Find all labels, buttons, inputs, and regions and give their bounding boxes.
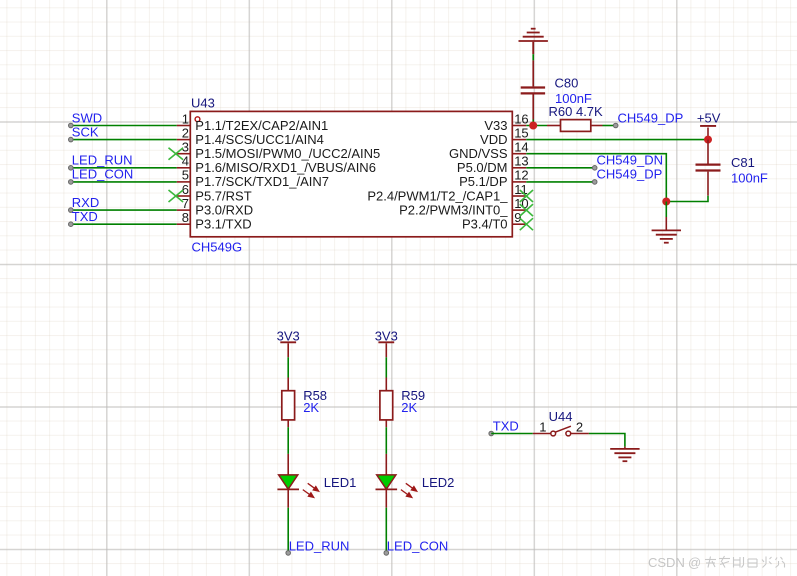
- net label RXD: [72, 195, 99, 210]
- net port dot CH549_DP (lower): [592, 180, 597, 185]
- svg-text:P1.7/SCK/TXD1_/AIN7: P1.7/SCK/TXD1_/AIN7: [195, 174, 329, 189]
- svg-text:CH549G: CH549G: [192, 240, 243, 255]
- svg-text:SCK: SCK: [72, 124, 99, 139]
- svg-text:P1.1/T2EX/CAP2/AIN1: P1.1/T2EX/CAP2/AIN1: [195, 118, 328, 133]
- wire C80 to node V33: [532, 120, 534, 126]
- U43 left pin numbers 1-8: [182, 111, 189, 225]
- C81 designator: [731, 155, 755, 170]
- power 3V3 (right column): [375, 328, 398, 357]
- svg-text:P3.1/TXD: P3.1/TXD: [195, 217, 251, 232]
- wire 3V3 to R58: [287, 357, 289, 377]
- svg-text:CH549_DP: CH549_DP: [618, 110, 684, 125]
- watermark CJK glyph placeholders: [705, 556, 785, 568]
- no-connect X pin 6: [169, 190, 184, 202]
- ground GND1 (top, flipped up): [519, 29, 548, 55]
- svg-text:P2.4/PWM1/T2_/CAP1_: P2.4/PWM1/T2_/CAP1_: [367, 188, 508, 203]
- wire TXD to switch pin1: [491, 433, 533, 435]
- net port dot LED_CON: [69, 180, 74, 185]
- svg-text:1: 1: [539, 419, 546, 434]
- U44 designator: [549, 409, 573, 424]
- svg-text:4: 4: [182, 154, 189, 169]
- svg-text:TXD: TXD: [493, 418, 519, 433]
- svg-text:2: 2: [182, 125, 189, 140]
- junction node V33: [529, 122, 537, 130]
- wire gnd node down: [665, 202, 667, 218]
- wire GND1 to C80: [532, 54, 534, 60]
- svg-text:LED_RUN: LED_RUN: [289, 538, 350, 553]
- U43 reference designator: [191, 96, 215, 111]
- net port dot CH549_DP (top): [613, 123, 618, 128]
- net label LED_RUN (bottom): [289, 538, 350, 553]
- net port dot TXD: [69, 222, 74, 227]
- no-connect X pin 3: [169, 148, 184, 160]
- R58 designator: [303, 388, 327, 403]
- svg-text:VDD: VDD: [480, 132, 507, 147]
- power +5V symbol: [697, 111, 721, 136]
- ground GND2 (below C81): [652, 217, 681, 243]
- svg-text:LED1: LED1: [324, 475, 357, 490]
- svg-text:SWD: SWD: [72, 110, 102, 125]
- U43 value CH549G: [192, 240, 243, 255]
- svg-text:U43: U43: [191, 96, 215, 111]
- net port dot TXD (switch): [489, 431, 494, 436]
- svg-text:C81: C81: [731, 155, 755, 170]
- U43 right pin stubs 16-9: [512, 126, 526, 225]
- resistor R58: [282, 378, 295, 428]
- svg-text:C80: C80: [555, 76, 579, 91]
- wire LED_CON to pin 5: [71, 181, 177, 183]
- svg-text:1: 1: [182, 111, 189, 126]
- net label LED_CON (bottom): [387, 538, 448, 553]
- svg-text:R60 4.7K: R60 4.7K: [549, 104, 604, 119]
- LED LED2: [376, 454, 417, 508]
- R59 value 2K: [401, 400, 417, 415]
- svg-text:100nF: 100nF: [731, 170, 768, 185]
- svg-text:6: 6: [182, 182, 189, 197]
- junction node VDD/+5V: [704, 136, 712, 144]
- svg-text:8: 8: [182, 210, 189, 225]
- svg-text:LED_RUN: LED_RUN: [72, 153, 133, 168]
- net label TXD: [72, 209, 98, 224]
- svg-text:3: 3: [182, 140, 189, 155]
- svg-text:P3.0/RXD: P3.0/RXD: [195, 202, 253, 217]
- svg-text:LED2: LED2: [422, 475, 455, 490]
- svg-text:2: 2: [576, 419, 583, 434]
- R59 designator: [401, 388, 425, 403]
- no-connect X pin 10: [520, 204, 533, 216]
- svg-text:CH549_DP: CH549_DP: [597, 167, 663, 182]
- svg-text:P1.4/SCS/UCC1/AIN4: P1.4/SCS/UCC1/AIN4: [195, 132, 324, 147]
- svg-text:LED_CON: LED_CON: [72, 167, 133, 182]
- junction node GND: [662, 198, 670, 206]
- net port dot LED_CON (bottom): [384, 551, 389, 556]
- svg-text:+5V: +5V: [697, 111, 721, 126]
- wire C81 bottom to gnd node: [666, 196, 708, 202]
- svg-text:P5.1/DP: P5.1/DP: [459, 174, 507, 189]
- net label TXD (switch): [493, 418, 519, 433]
- resistor R60: [547, 120, 603, 132]
- wire pin12 to CH549_DP: [526, 181, 594, 183]
- ground GND3 (switch): [610, 447, 639, 462]
- svg-text:P2.2/PWM3/INT0_: P2.2/PWM3/INT0_: [399, 202, 508, 217]
- svg-text:3V3: 3V3: [277, 328, 300, 343]
- U44 pin number 1: [539, 419, 546, 434]
- no-connect X pin 9: [520, 218, 533, 230]
- net port dot LED_RUN (bottom): [286, 551, 291, 556]
- net port dot CH549_DN: [592, 166, 597, 171]
- U43 left pin stubs 1-8: [177, 126, 191, 225]
- svg-text:2K: 2K: [401, 400, 417, 415]
- wire pin13 to CH549_DN: [526, 167, 594, 169]
- C80 value 100nF: [555, 91, 592, 106]
- C80 designator: [555, 76, 579, 91]
- wire LED1 to LED_RUN: [287, 508, 289, 552]
- LED LED1: [277, 454, 318, 508]
- capacitor C80: [521, 60, 545, 119]
- C81 value 100nF: [731, 170, 768, 185]
- R58 value 2K: [303, 400, 319, 415]
- wire RXD to pin 7: [71, 209, 177, 211]
- svg-text:P1.6/MISO/RXD1_/VBUS/AIN6: P1.6/MISO/RXD1_/VBUS/AIN6: [195, 160, 376, 175]
- svg-text:RXD: RXD: [72, 195, 99, 210]
- wire pin15 VDD to +5V: [526, 139, 708, 141]
- LED1 designator: [324, 475, 357, 490]
- net label LED_RUN: [72, 153, 133, 168]
- svg-text:P5.7/RST: P5.7/RST: [195, 188, 251, 203]
- net label LED_CON: [72, 167, 133, 182]
- svg-text:16: 16: [514, 111, 528, 126]
- wire pin16 to R60: [526, 125, 547, 127]
- svg-text:P5.0/DM: P5.0/DM: [457, 160, 508, 175]
- svg-text:GND/VSS: GND/VSS: [449, 146, 508, 161]
- svg-text:CSDN: CSDN: [648, 555, 685, 570]
- net port dot RXD: [69, 208, 74, 213]
- switch U44: [533, 426, 589, 436]
- wire R60 to CH549_DP: [603, 125, 616, 127]
- wire TXD to pin 8: [71, 223, 177, 225]
- net label CH549_DP (lower): [597, 167, 663, 182]
- wire switch pin2 to ground: [589, 434, 625, 447]
- net label CH549_DN: [597, 153, 663, 168]
- wire LED_RUN to pin 4: [71, 167, 177, 169]
- U44 pin number 2: [576, 419, 583, 434]
- U43 right pin names: [367, 118, 508, 232]
- resistor R59: [380, 378, 393, 428]
- net label SWD: [72, 110, 102, 125]
- svg-text:P3.4/T0: P3.4/T0: [462, 217, 508, 232]
- svg-text:P1.5/MOSI/PWM0_/UCC2/AIN5: P1.5/MOSI/PWM0_/UCC2/AIN5: [195, 146, 380, 161]
- U43 left pin names: [195, 118, 380, 232]
- power 3V3 (left column): [277, 328, 300, 357]
- svg-text:7: 7: [182, 196, 189, 211]
- wire R59 to LED2: [385, 427, 387, 454]
- svg-text:2K: 2K: [303, 400, 319, 415]
- svg-text:LED_CON: LED_CON: [387, 538, 448, 553]
- svg-text:TXD: TXD: [72, 209, 98, 224]
- svg-text:13: 13: [514, 154, 528, 169]
- net label CH549_DP (top): [618, 110, 684, 125]
- IC U43 body: [190, 111, 512, 236]
- wire 3V3 to R59: [385, 357, 387, 377]
- wire LED2 to LED_CON: [385, 508, 387, 552]
- svg-text:15: 15: [514, 125, 528, 140]
- wire R58 to LED1: [287, 427, 289, 454]
- net port dot SWD: [69, 123, 74, 128]
- U43 right pin numbers 16-9: [514, 111, 528, 225]
- svg-text:14: 14: [514, 140, 528, 155]
- svg-text:@: @: [688, 555, 701, 570]
- wire SCK to pin 2: [71, 139, 177, 141]
- LED2 designator: [422, 475, 455, 490]
- net port dot LED_RUN: [69, 166, 74, 171]
- svg-text:CH549_DN: CH549_DN: [597, 153, 663, 168]
- R60 designator and value: [549, 104, 604, 119]
- wire SWD to pin 1: [71, 125, 177, 127]
- svg-text:U44: U44: [549, 409, 573, 424]
- capacitor C81: [696, 140, 721, 196]
- svg-text:9: 9: [514, 210, 521, 225]
- net port dot SCK: [69, 137, 74, 142]
- wire pin14 GND/VSS right and down: [526, 154, 666, 202]
- no-connect X pin 11: [520, 190, 533, 202]
- U43 pin1 indicator dot: [195, 117, 200, 122]
- svg-text:12: 12: [514, 168, 528, 183]
- svg-text:5: 5: [182, 168, 189, 183]
- net label SCK: [72, 124, 99, 139]
- svg-text:3V3: 3V3: [375, 328, 398, 343]
- svg-text:10: 10: [514, 196, 528, 211]
- watermark CSDN: [648, 555, 701, 570]
- svg-text:V33: V33: [484, 118, 507, 133]
